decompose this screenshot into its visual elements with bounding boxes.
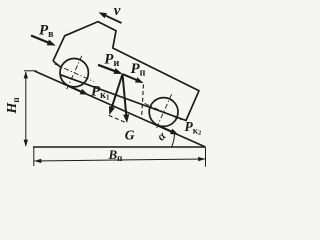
svg-text:v: v	[114, 3, 121, 19]
apex extension tick	[24, 70, 37, 72]
force P_v air resistance arrow	[31, 36, 51, 44]
extension line right	[205, 148, 207, 167]
rear wheel center marks	[145, 103, 184, 120]
dashed parallelogram side bottom	[109, 115, 127, 123]
dashed parallelogram side right	[142, 85, 144, 118]
front wheel center marks	[55, 64, 94, 82]
force P_k2 rolling resistance rear arrow	[158, 125, 174, 132]
svg-text:G: G	[125, 128, 135, 143]
dimension line H_p vertical	[25, 72, 27, 146]
normal component arrow	[111, 74, 123, 110]
incline surface line	[35, 71, 206, 147]
ground line	[33, 146, 206, 148]
front wheel	[60, 58, 88, 86]
weight G arrow	[123, 74, 127, 118]
rear wheel	[149, 98, 178, 127]
extension line left	[33, 148, 35, 167]
force P_k1 rolling resistance front arrow	[68, 86, 84, 93]
dimension line B_p horizontal	[34, 159, 205, 161]
velocity v arrow	[103, 14, 122, 23]
angle alpha arc	[172, 133, 175, 147]
truck front lower stub	[53, 61, 61, 68]
force P_p grade resistance arrow	[123, 74, 140, 81]
force P_i inertia arrow	[98, 65, 118, 72]
truck body outline	[53, 22, 199, 121]
